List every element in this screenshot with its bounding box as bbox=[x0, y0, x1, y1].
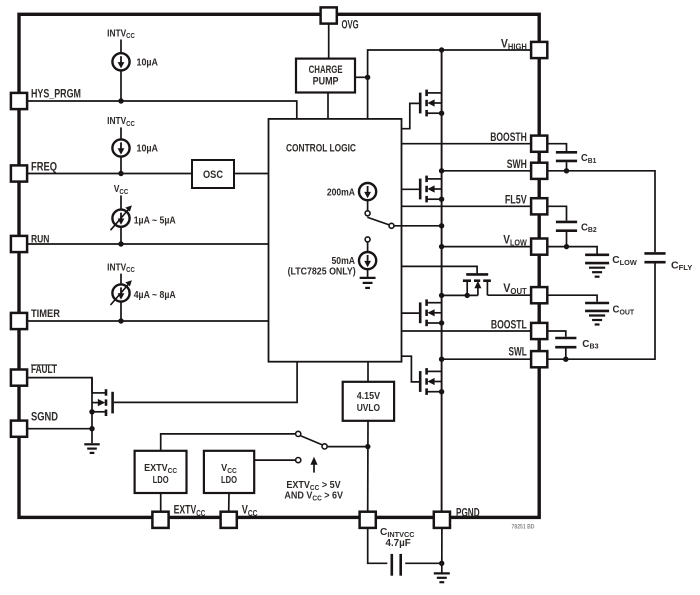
switch arm bbox=[367, 217, 389, 225]
junction rail VOUT branch bbox=[439, 293, 444, 298]
wire BOOSTH bbox=[402, 143, 532, 145]
wire SWH bbox=[442, 170, 531, 172]
wire SGND bbox=[27, 428, 92, 430]
wire switch pole to INTVCC rail bbox=[327, 446, 368, 448]
svg-text:SWL: SWL bbox=[509, 346, 527, 359]
wire VLOW to CLOW bbox=[547, 247, 597, 254]
svg-text:OSC: OSC bbox=[203, 169, 224, 181]
ground COUT bbox=[589, 316, 605, 325]
wire OVG to charge pump bbox=[328, 22, 330, 59]
transistor Q6 VOUT PMOS bbox=[463, 274, 491, 295]
label EXTVCC LDO bbox=[144, 463, 177, 486]
pin HYS_PRGM bbox=[11, 93, 27, 109]
wire FAULT to Q5 drain bbox=[27, 378, 92, 393]
capacitor CB3 bbox=[555, 338, 576, 347]
wire M1 gate bbox=[402, 103, 421, 128]
label FAULT bbox=[31, 364, 57, 377]
wire VCC to source bbox=[120, 195, 122, 210]
junction charge pump output bbox=[365, 75, 370, 80]
label 50mA bbox=[332, 256, 356, 267]
wire charge pump to control logic bbox=[327, 93, 329, 119]
pin VCC bbox=[221, 512, 237, 528]
svg-text:SWH: SWH bbox=[507, 159, 527, 171]
wire TIMER bbox=[27, 320, 268, 322]
label TIMER bbox=[31, 308, 60, 320]
label CB1 bbox=[581, 153, 596, 165]
capacitor CFLY bbox=[644, 253, 665, 262]
wire INTVCC3 to source bbox=[120, 274, 122, 285]
pin SWL bbox=[531, 351, 547, 367]
label CFLY bbox=[671, 261, 692, 273]
ground PGND bbox=[434, 573, 450, 582]
label CINTVCC bbox=[380, 527, 415, 539]
label 10uA 2 bbox=[137, 143, 159, 155]
ground 50mA source bbox=[360, 278, 376, 288]
svg-text:TIMER: TIMER bbox=[31, 308, 60, 320]
selection arrow bbox=[310, 457, 317, 473]
pin TIMER bbox=[11, 313, 27, 329]
capacitor CB1 bbox=[556, 152, 577, 161]
UVLO box bbox=[343, 382, 394, 421]
wire CB2 to VLOW bbox=[566, 232, 568, 247]
switch contact top bbox=[365, 211, 370, 216]
pin FREQ bbox=[11, 165, 27, 181]
svg-text:78251 BD: 78251 BD bbox=[512, 524, 535, 531]
junction VHIGH rail bbox=[439, 47, 444, 52]
pin OVG bbox=[321, 7, 337, 23]
current source 4uA-8uA bbox=[111, 280, 132, 305]
label 1uA-5uA bbox=[134, 215, 176, 226]
pin BOOSTL bbox=[531, 323, 547, 339]
wire OSC to control logic bbox=[234, 173, 269, 175]
wire CB1 to SWH bbox=[566, 162, 568, 171]
svg-text:4.15V: 4.15V bbox=[357, 391, 381, 403]
wire Q5 gate from control logic bbox=[114, 362, 297, 403]
svg-text:FREQ: FREQ bbox=[31, 162, 57, 174]
label BOOSTH bbox=[490, 132, 527, 144]
wire Q6 gate from control logic bbox=[402, 266, 478, 273]
svg-text:200mA: 200mA bbox=[327, 187, 355, 198]
label RUN bbox=[31, 234, 49, 246]
wire RUN bbox=[27, 243, 268, 245]
wire rail into control logic (200mA feed) bbox=[367, 77, 369, 184]
EXTVCC LDO box bbox=[135, 451, 187, 493]
label SGND bbox=[31, 412, 58, 424]
wire VCC LDO to switch bbox=[254, 459, 295, 461]
svg-text:LDO: LDO bbox=[221, 474, 237, 485]
label EXTVCC gt 5V bbox=[286, 480, 341, 492]
svg-text:FL5V: FL5V bbox=[505, 195, 527, 207]
svg-text:(LTC7825 ONLY): (LTC7825 ONLY) bbox=[288, 265, 356, 277]
label BOOSTL bbox=[491, 319, 527, 331]
junction FREQ bbox=[118, 171, 123, 176]
wire PGND pin to ground bbox=[441, 528, 443, 573]
svg-text:LDO: LDO bbox=[153, 474, 169, 485]
switch contact EXTVCC bbox=[296, 431, 301, 436]
svg-text:FAULT: FAULT bbox=[31, 364, 57, 377]
current source 10uA 2 bbox=[112, 139, 129, 156]
transistor M2 NMOS bbox=[420, 176, 444, 203]
junction TIMER bbox=[118, 318, 123, 323]
wire EXTVCC LDO to switch bbox=[161, 434, 296, 451]
wire source4 to TIMER bbox=[120, 301, 122, 321]
transistor M4 NMOS bbox=[420, 368, 444, 395]
wire CB3 to SWL bbox=[565, 349, 567, 360]
junction CINTVCC ground bbox=[439, 561, 444, 566]
wire BOOSTH to CB1 bbox=[547, 144, 566, 151]
OSC box bbox=[192, 160, 234, 188]
control logic box bbox=[269, 119, 402, 362]
wire CINTVCC to ground bbox=[405, 562, 442, 564]
wire VOUT to COUT bbox=[547, 295, 597, 302]
wire CFLY to SWL bbox=[547, 264, 655, 360]
pin VOUT bbox=[531, 287, 547, 303]
label FREQ bbox=[31, 162, 57, 174]
node VCC 1 bbox=[114, 184, 129, 197]
label 4uA-8uA bbox=[134, 290, 176, 301]
pin VHIGH bbox=[531, 42, 547, 58]
label OVG bbox=[342, 19, 359, 32]
label CLOW bbox=[612, 255, 637, 267]
wire switch to rail bbox=[394, 225, 442, 227]
transistor Q5 fault bbox=[89, 378, 112, 444]
junction INTVCC switch bbox=[365, 444, 370, 449]
pin BOOSTH bbox=[531, 136, 547, 152]
wire UVLO to INTVCC pin bbox=[367, 421, 369, 512]
ground CLOW bbox=[589, 268, 605, 277]
wire BOOSTL to CB3 bbox=[547, 331, 566, 337]
svg-text:PGND: PGND bbox=[456, 507, 480, 520]
junction switch rail bbox=[439, 223, 444, 228]
pin INTVCC bbox=[360, 512, 376, 528]
wire SWH to CFLY bbox=[547, 171, 655, 252]
switch pole INTVCC bbox=[322, 444, 327, 449]
junction VLOW bbox=[439, 244, 444, 249]
svg-text:BOOSTH: BOOSTH bbox=[490, 132, 527, 144]
wire INTVCC pin to CINTVCC bbox=[368, 528, 388, 563]
label EXTVCC pin bbox=[174, 505, 206, 518]
wire charge pump output bbox=[355, 76, 368, 78]
wire EXTVCC LDO to pin bbox=[160, 493, 162, 511]
junction CB3 SWL bbox=[563, 357, 568, 362]
wire 200mA to switch contact bbox=[367, 200, 369, 211]
svg-text:BOOSTL: BOOSTL bbox=[491, 319, 527, 331]
label 200mA bbox=[327, 187, 355, 198]
wire M3 gate bbox=[402, 312, 421, 314]
pin VLOW bbox=[531, 239, 547, 255]
pin FL5V bbox=[531, 198, 547, 214]
wire contact to 50mA source bbox=[367, 242, 369, 253]
switch contact VCC bbox=[296, 458, 301, 463]
wire FREQ to OSC bbox=[27, 173, 192, 175]
junction SWH bbox=[439, 168, 444, 173]
transistor M3 NMOS bbox=[420, 299, 444, 326]
label SWH bbox=[507, 159, 527, 171]
wire SWL bbox=[442, 358, 531, 360]
svg-text:10µA: 10µA bbox=[137, 57, 159, 69]
label CB3 bbox=[582, 339, 598, 351]
pin SWH bbox=[531, 163, 547, 179]
current source 1uA-5uA bbox=[111, 205, 132, 230]
label VCC pin bbox=[242, 505, 258, 518]
wire source1 to HYS_PRGM bbox=[120, 70, 122, 101]
svg-text:OVG: OVG bbox=[342, 19, 359, 32]
charge pump box bbox=[296, 59, 355, 93]
junction Q6 source bbox=[465, 293, 470, 298]
capacitor CLOW bbox=[585, 255, 609, 263]
label CB2 bbox=[581, 222, 597, 234]
label VCC LDO bbox=[221, 463, 237, 486]
label VHIGH bbox=[501, 38, 527, 52]
label LTC7825 ONLY bbox=[288, 265, 356, 277]
wire main vertical rail bbox=[441, 50, 443, 511]
svg-text:4.7µF: 4.7µF bbox=[386, 538, 411, 549]
label UVLO bbox=[357, 391, 381, 415]
wire charge pump rail to VHIGH row bbox=[368, 50, 442, 77]
svg-text:1µA ~ 5µA: 1µA ~ 5µA bbox=[134, 215, 176, 226]
current source 50mA bbox=[359, 252, 376, 269]
capacitor COUT bbox=[585, 303, 609, 311]
switch contact 50mA bbox=[365, 237, 370, 242]
svg-text:HYS_PRGM: HYS_PRGM bbox=[31, 89, 81, 101]
wire source2 to FREQ bbox=[120, 156, 122, 173]
wire VHIGH bbox=[442, 49, 531, 51]
wire rail to Q6 bbox=[442, 294, 478, 296]
pin EXTVCC bbox=[152, 512, 168, 528]
pin RUN bbox=[11, 236, 27, 252]
svg-text:PUMP: PUMP bbox=[313, 76, 339, 88]
label AND VCC gt 6V bbox=[284, 490, 343, 502]
pin SGND bbox=[11, 421, 27, 437]
wire M2 gate bbox=[402, 188, 421, 190]
label COUT bbox=[613, 304, 635, 316]
svg-text:10µA: 10µA bbox=[137, 143, 159, 155]
wire source3 to RUN bbox=[120, 226, 122, 244]
label HYS_PRGM bbox=[31, 89, 81, 101]
junction CB2 VLOW bbox=[564, 244, 569, 249]
label OSC bbox=[203, 169, 224, 181]
VCC LDO box bbox=[204, 451, 254, 493]
switch contact right bbox=[389, 223, 394, 228]
wire 50mA to ground bbox=[367, 269, 369, 278]
LDO switch arm bbox=[300, 436, 322, 445]
svg-text:CONTROL LOGIC: CONTROL LOGIC bbox=[286, 142, 356, 154]
figure number bbox=[512, 524, 535, 531]
current source 200mA bbox=[359, 183, 376, 200]
control logic label bbox=[286, 142, 356, 154]
label VLOW bbox=[503, 234, 527, 248]
transistor M1 top NMOS bbox=[420, 90, 444, 117]
label FL5V bbox=[505, 195, 527, 207]
junction SGND bbox=[89, 426, 94, 431]
junction HYS_PRGM bbox=[118, 98, 123, 103]
wire VOUT bbox=[487, 294, 531, 296]
node INTVCC 1 bbox=[107, 28, 135, 41]
junction RUN bbox=[118, 241, 123, 246]
capacitor CB2 bbox=[556, 222, 577, 231]
junction SWL bbox=[439, 357, 444, 362]
node INTVCC 2 bbox=[107, 116, 135, 129]
svg-text:4µA ~ 8µA: 4µA ~ 8µA bbox=[134, 290, 176, 301]
current source 10uA 1 bbox=[112, 53, 129, 70]
svg-text:SGND: SGND bbox=[31, 412, 58, 424]
wire control logic to UVLO bbox=[367, 362, 369, 382]
capacitor CINTVCC bbox=[392, 554, 401, 576]
ground SGND bbox=[84, 444, 100, 453]
svg-text:CHARGE: CHARGE bbox=[309, 63, 343, 76]
label VOUT bbox=[503, 283, 527, 296]
wire HYS_PRGM bbox=[27, 101, 297, 119]
svg-text:UVLO: UVLO bbox=[357, 402, 380, 414]
charge pump label bbox=[309, 63, 343, 88]
junction CB1 SWH bbox=[564, 168, 569, 173]
node INTVCC 3 bbox=[107, 262, 135, 275]
label 4.7uF bbox=[386, 538, 411, 549]
wire FL5V bbox=[402, 205, 532, 207]
label SWL bbox=[509, 346, 527, 359]
IC boundary frame bbox=[19, 14, 539, 517]
label 10uA 1 bbox=[137, 57, 159, 69]
label PGND bbox=[456, 507, 480, 520]
pin FAULT bbox=[11, 370, 27, 386]
wire VLOW bbox=[442, 246, 531, 248]
wire INTVCC1 to source bbox=[120, 40, 122, 54]
pin PGND bbox=[434, 512, 450, 528]
wire VCC LDO to pin bbox=[228, 493, 230, 511]
wire INTVCC2 to source bbox=[120, 127, 122, 139]
wire BOOSTL bbox=[402, 330, 532, 332]
wire FL5V to CB2 bbox=[547, 206, 566, 220]
wire M4 gate bbox=[402, 356, 421, 382]
